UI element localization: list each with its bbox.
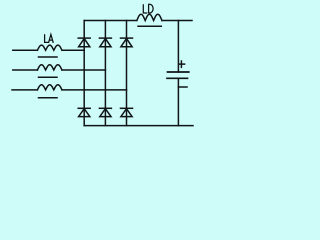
- diode D5 bottom of column 2: [99, 108, 111, 116]
- wire top rail left segment: [84, 20, 137, 22]
- diode D1 top of column 1: [78, 38, 90, 47]
- wire bottom rail: [84, 125, 193, 127]
- label LD: [143, 4, 153, 13]
- inductor phase C winding: [37, 85, 62, 90]
- capacitor top plate: [168, 71, 189, 73]
- wire phase B horizontal lead: [13, 69, 38, 71]
- wire bridge column 1: [83, 21, 85, 126]
- inductor phase B core line: [39, 76, 58, 78]
- minus polarity tick: [178, 86, 187, 88]
- wire phase B to bridge: [62, 69, 105, 71]
- inductor phase B winding: [37, 65, 62, 70]
- label LA: [45, 34, 54, 43]
- capacitor bottom plate: [167, 77, 188, 79]
- inductor LA (phase A winding): [37, 45, 62, 50]
- wire capacitor branch upper: [177, 21, 179, 73]
- wire phase A to bridge: [62, 49, 84, 51]
- wire top rail right segment: [162, 20, 192, 22]
- inductor phase C core line: [39, 97, 58, 99]
- diode D6 bottom of column 3: [121, 108, 133, 116]
- diode D3 top of column 3: [121, 38, 133, 47]
- diode D4 bottom of column 1: [78, 108, 90, 116]
- wire phase A horizontal lead: [13, 49, 38, 51]
- wire phase C to bridge: [62, 89, 127, 91]
- diode D2 top of column 2: [99, 38, 111, 47]
- wire phase C horizontal lead: [12, 89, 37, 91]
- wire bridge column 3: [126, 21, 128, 126]
- plus polarity sign: [179, 61, 185, 67]
- wire capacitor branch lower: [177, 78, 179, 125]
- inductor LD winding: [137, 14, 162, 20]
- inductor LD core line: [138, 25, 161, 27]
- inductor LA core line: [39, 56, 58, 58]
- wire bridge column 2: [104, 21, 106, 126]
